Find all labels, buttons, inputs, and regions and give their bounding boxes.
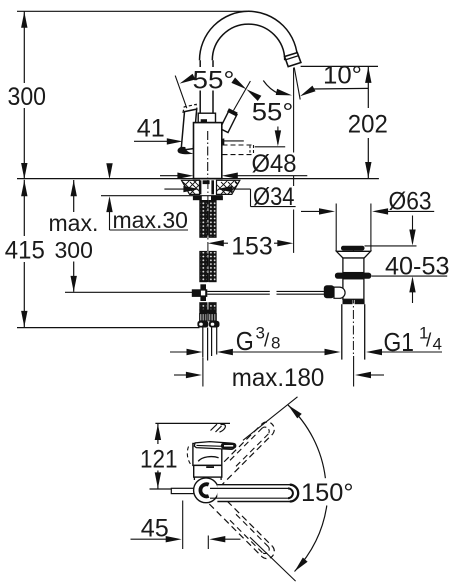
dimension 121 arrow up (155, 424, 161, 440)
stud nut band (199, 310, 216, 314)
front collar black tick (206, 466, 214, 468)
svg-text:153: 153 (231, 233, 273, 261)
G114 left arrowhead (325, 349, 341, 355)
dimension 202 line upper segment (367, 67, 369, 109)
dimension 415 line lower segment (23, 262, 25, 327)
max30 down arrow (109, 165, 111, 177)
diameter 63 extension left (335, 204, 337, 252)
45 left extension line (182, 501, 184, 550)
dimension 202 line lower segment (367, 138, 369, 178)
closed lever handle (181, 109, 197, 150)
diameter 34 right arrowhead (217, 186, 233, 192)
escutcheon right section (217, 180, 240, 194)
svg-text:10°: 10° (323, 61, 362, 89)
svg-text:40-53: 40-53 (385, 253, 450, 281)
hose collar right (209, 321, 220, 328)
handle dashed projection end (253, 145, 255, 155)
45 right extension line (207, 536, 209, 550)
svg-text:121: 121 (140, 445, 178, 473)
dimension 415 arrow up (21, 180, 27, 196)
upper dashed spout inner tip arc (262, 427, 269, 434)
threaded shank right stud lower (209, 251, 216, 281)
top reference line (spout height) (17, 10, 247, 12)
svg-text:max.180: max.180 (232, 364, 324, 392)
solid spout bar outer (217, 485, 298, 502)
pull rod coupling center (201, 291, 205, 296)
open lever black cap (228, 110, 237, 114)
front body below collar (194, 477, 221, 480)
dimension max300 line lower segment (73, 262, 75, 292)
svg-text:8: 8 (271, 334, 280, 353)
41 leader line (134, 140, 170, 142)
svg-text:300: 300 (55, 237, 93, 263)
front collar rect (194, 465, 222, 477)
pull rod segment 2 (277, 291, 325, 294)
drain tailpipe right wall (364, 304, 366, 359)
max180 right arrow tail (369, 374, 385, 376)
45 right arrowhead (209, 536, 225, 542)
svg-text:55°: 55° (252, 98, 293, 126)
55deg second arc (263, 81, 279, 94)
45 right tail (223, 538, 241, 540)
svg-text:max.: max. (49, 210, 99, 236)
threaded shank left stud upper (200, 201, 207, 238)
pull rod segment 1 (207, 291, 269, 294)
upper dashed spout inner line 2 (236, 434, 268, 466)
diameter 63 left arrowhead (319, 208, 335, 214)
dimension 300 line upper segment (23, 11, 25, 83)
max180 right arrowhead (355, 372, 371, 378)
shank stud edges through escutcheon (199, 180, 201, 194)
svg-text:45: 45 (141, 515, 169, 543)
front cap curve (198, 457, 218, 462)
svg-text:/: / (426, 331, 432, 352)
153 right tail (274, 242, 280, 244)
diameter 63 extension right (370, 204, 372, 252)
45 left arrowhead (166, 536, 182, 542)
spout tip divider line (286, 56, 299, 60)
faucet body (194, 123, 222, 179)
diameter 34 left tail (164, 188, 186, 190)
rod knob black (324, 285, 335, 298)
escutcheon right hatch (214, 179, 243, 196)
svg-text:Ø63: Ø63 (389, 188, 432, 216)
front cap rect (193, 444, 222, 466)
10 degree arrow (298, 86, 315, 99)
svg-text:41: 41 (137, 115, 165, 143)
svg-text:202: 202 (348, 111, 388, 139)
hose reference line at 415 bottom (17, 327, 200, 329)
diameter 48 right tail underline (234, 175, 307, 177)
55deg second arc arrowhead (276, 89, 293, 99)
upper dashed spout edge 1 (209, 424, 262, 477)
svg-text:150°: 150° (301, 479, 354, 507)
dimension 121 line lower segment (157, 471, 159, 489)
svg-text:415: 415 (5, 236, 45, 264)
45 left tail (131, 538, 169, 540)
stud bottom hatch left (200, 303, 207, 310)
svg-text:4: 4 (433, 335, 442, 354)
flexible hose right (212, 328, 217, 357)
handle projection line (255, 146, 286, 148)
spout stream vertical line lower / 153 end tick (293, 210, 295, 253)
dimension 300 line lower segment (23, 108, 25, 179)
handle dashed projection inner end (249, 146, 251, 154)
max180 left arrowhead (186, 372, 202, 378)
mounting seal left (193, 196, 202, 201)
handle dashed projection top (223, 144, 254, 146)
spout outer arc (200, 11, 298, 60)
153 right arrowhead (277, 240, 293, 246)
upper dashed spout tip arc (262, 422, 274, 434)
pull rod tab (171, 488, 194, 493)
front view top reference line (155, 422, 230, 424)
max180 right extension solid (353, 356, 355, 387)
lower dashed spout inner tip arc (262, 547, 269, 554)
svg-text:/: / (264, 331, 270, 352)
swivel arc upper segment (288, 405, 325, 478)
max180 left extension (202, 358, 204, 387)
diameter 63 underline (386, 210, 435, 212)
collar cap (198, 113, 215, 122)
threaded shank right stud upper (209, 201, 216, 238)
G38 left arrowhead (187, 349, 203, 355)
lower axis line (250, 537, 296, 581)
swivel arc arrow bottom (292, 557, 307, 573)
55deg bowtie arrow upper (231, 78, 248, 92)
G38 right tail to drain (233, 351, 327, 353)
spout tip aerator (285, 53, 301, 67)
lower dashed spout edge 2 (220, 494, 273, 547)
G114 right arrowhead (366, 349, 382, 355)
riser tube right wall (212, 60, 214, 113)
55deg second down arrowhead (275, 130, 281, 146)
diameter 48 right arrowhead (222, 173, 238, 179)
lower dashed spout inner line 1 (230, 520, 262, 552)
dimension 121 line upper segment (157, 424, 159, 444)
spout outer end segment (296, 60, 298, 63)
153 left tail (221, 242, 228, 244)
55deg left arrowhead (178, 74, 195, 87)
G38 right arrowhead (217, 349, 233, 355)
10 degree dimension line (312, 87, 369, 90)
max30 underline (110, 229, 189, 231)
diameter 34 left arrowhead (183, 186, 199, 192)
diameter 34 underline (251, 206, 296, 208)
threaded shank left stud lower (200, 251, 207, 281)
flexible hose left (203, 328, 208, 361)
front lever dark tip (221, 443, 237, 449)
swivel arc arrow top (286, 403, 302, 419)
svg-text:G1: G1 (384, 329, 415, 357)
svg-text:Ø48: Ø48 (252, 150, 297, 178)
drain plug cap (341, 246, 365, 251)
max180 left arrow tail (174, 374, 188, 376)
drain locknut (335, 273, 371, 279)
dimension 202 arrow up (365, 67, 371, 83)
dimension 300 arrow down (21, 163, 27, 179)
max30 up arrow (109, 199, 111, 231)
drain centerline (352, 248, 354, 356)
shank centerline (207, 180, 209, 284)
55deg left leader line (175, 76, 187, 109)
drain lower body (343, 279, 364, 300)
drain tailpipe left wall (341, 304, 343, 359)
dimension 415 arrow down (21, 311, 27, 327)
front lever tip slit (224, 445, 233, 447)
rod knob cylinder (334, 287, 345, 298)
upper dashed spout edge 2 (220, 434, 273, 487)
escutcheon left hatch (176, 179, 204, 196)
55deg bowtie arrow lower (245, 87, 262, 101)
swivel arc lower segment (295, 506, 327, 572)
dimension max300 arrow up (71, 180, 77, 196)
upper axis line (243, 397, 298, 441)
handle dashed projection bottom (223, 154, 254, 156)
lower dashed spout edge 1 (209, 504, 262, 557)
drain washer right (355, 300, 365, 304)
lower dashed spout tip arc (262, 547, 274, 559)
G114 right tail (380, 351, 443, 353)
55deg second down arrow line (277, 127, 279, 145)
drain upper body (343, 258, 364, 273)
40-53 down arrow (412, 216, 414, 244)
front view bottom reference line (150, 488, 182, 490)
10 degree slant line (294, 67, 300, 99)
body centerline (207, 131, 209, 178)
dimension 300 arrow up (21, 12, 27, 28)
dashed spout rear curl dashes (211, 424, 226, 432)
knurled nut right (209, 314, 217, 321)
pull rod coupling horizontal (192, 289, 208, 297)
55deg right leader line (234, 81, 251, 111)
escutcheon left section (182, 180, 200, 194)
dimension 202 arrow down (365, 162, 371, 178)
diameter 48 left arrowhead (177, 173, 193, 179)
dimension max300 line upper segment (73, 180, 75, 212)
closed lever foot (178, 147, 194, 154)
deck top line (17, 178, 379, 180)
solid spout bar inner (210, 488, 293, 498)
stud bottom hatch right (209, 303, 216, 310)
diameter 63 right arrowhead (372, 208, 388, 214)
spout boss black ring (200, 484, 208, 496)
spout boss outer circle (194, 478, 219, 503)
max300 reference line and pull rod left (65, 291, 192, 293)
tip level reference line (301, 65, 378, 67)
40-53 up arrow (412, 279, 414, 303)
spout inner arc (212, 24, 284, 60)
upper dashed spout inner line 1 (230, 428, 262, 460)
open lever at 55deg (220, 111, 237, 133)
drain flange (336, 251, 370, 258)
drain washer left (343, 300, 353, 304)
mounting seal right (211, 196, 223, 201)
41 arrowhead (167, 138, 183, 144)
diameter 63 left tail (301, 210, 322, 212)
lower dashed spout inner line 2 (236, 514, 268, 546)
pull rod coupling vertical (200, 284, 206, 301)
lever dashed swing arc (187, 447, 191, 466)
dimension 121 arrow down (155, 472, 161, 488)
black tab (201, 119, 207, 123)
deck bottom line (101, 195, 223, 197)
centerline arrow tail (221, 140, 244, 142)
G38 left tail (170, 351, 187, 353)
spout stream vertical line upper (293, 68, 295, 153)
svg-text:55°: 55° (193, 66, 235, 94)
dimension 415 line upper segment (23, 180, 25, 236)
diameter 34 right tail (230, 188, 251, 190)
knurled nut left (200, 314, 208, 321)
diameter 34 leader vertical (250, 189, 252, 207)
svg-text:300: 300 (8, 83, 47, 111)
dimension max300 arrow down (71, 276, 77, 292)
40-53 lower reference line (372, 275, 448, 277)
front lever bar (194, 442, 234, 450)
closed lever dashed cap (183, 104, 197, 113)
solid spout bar tip bold caps (290, 485, 298, 502)
front lever inner line (197, 445, 231, 446)
svg-text:max.30: max.30 (113, 207, 188, 233)
spout stream vertical line mid (293, 176, 295, 186)
centerline arrowhead (208, 138, 224, 144)
svg-text:Ø34: Ø34 (253, 183, 295, 211)
diameter 48 left tail (160, 175, 181, 177)
hose collar left (197, 321, 208, 328)
40-53 upper reference line (365, 245, 417, 247)
riser tube left wall (199, 60, 201, 113)
153 left arrowhead at centerline (208, 240, 224, 246)
